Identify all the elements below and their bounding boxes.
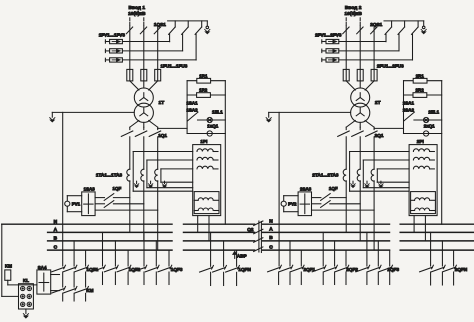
svg-text:1QF3: 1QF3 [171,267,183,272]
svg-text:2R1: 2R1 [416,74,425,79]
svg-text:PV1: PV1 [72,202,81,207]
svg-text:2R2: 2R2 [416,88,425,93]
svg-text:2EL1: 2EL1 [428,109,439,114]
svg-text:KM: KM [5,263,12,268]
svg-text:1SA1: 1SA1 [186,101,198,106]
svg-text:SA4: SA4 [38,265,47,270]
svg-text:1xQ1: 1xQ1 [207,124,218,129]
svg-text:1SA2: 1SA2 [186,108,198,113]
svg-text:C: C [54,245,58,251]
svg-text:C: C [269,244,273,250]
svg-text:Q2: Q2 [247,227,254,232]
svg-text:KM: KM [86,288,93,293]
svg-text:2SA2: 2SA2 [403,108,415,113]
svg-text:АВР: АВР [237,254,247,259]
svg-text:2FV1...2FV3: 2FV1...2FV3 [315,33,342,38]
svg-text:2SA3: 2SA3 [300,187,312,192]
svg-text:2SA1: 2SA1 [403,101,415,106]
svg-text:1SA3: 1SA3 [84,187,96,192]
svg-text:10(6)кВ: 10(6)кВ [344,11,362,17]
svg-text:1Q1: 1Q1 [158,133,167,138]
svg-text:A: A [269,227,273,233]
svg-text:1R1: 1R1 [199,74,208,79]
svg-text:1R2: 1R2 [199,88,208,93]
svg-text:PV2: PV2 [288,202,297,207]
svg-text:1QFN: 1QFN [238,267,251,272]
svg-text:Ввод 2: Ввод 2 [345,5,362,11]
svg-text:2PI: 2PI [417,139,424,144]
svg-text:2xQ1: 2xQ1 [424,124,435,129]
svg-text:N: N [54,219,58,225]
svg-text:A: A [54,227,58,233]
svg-text:KL: KL [23,278,29,283]
svg-text:1FV1...1FV3: 1FV1...1FV3 [99,33,126,38]
svg-text:1PI: 1PI [200,139,207,144]
svg-text:B: B [54,236,58,242]
svg-text:1QF: 1QF [329,186,338,191]
svg-text:1FU1...1FU3: 1FU1...1FU3 [161,63,188,68]
svg-text:1T: 1T [159,100,165,106]
svg-text:1QS1: 1QS1 [154,22,166,27]
svg-text:N: N [269,218,273,224]
svg-text:2Q1: 2Q1 [375,133,384,138]
svg-text:2TA1...2TA3: 2TA1...2TA3 [312,173,339,178]
svg-text:1TA1...1TA3: 1TA1...1TA3 [96,173,123,178]
svg-text:1QF: 1QF [113,186,122,191]
svg-text:10(6)кВ: 10(6)кВ [128,11,146,17]
svg-text:2QS1: 2QS1 [370,22,382,27]
svg-text:1EL1: 1EL1 [212,109,223,114]
svg-text:2T: 2T [375,100,381,106]
svg-text:2QFN: 2QFN [455,267,468,272]
svg-text:B: B [269,235,273,241]
svg-text:Ввод 1: Ввод 1 [129,5,146,11]
svg-text:2QF3: 2QF3 [387,267,399,272]
svg-text:2FU1...2FU3: 2FU1...2FU3 [377,63,404,68]
